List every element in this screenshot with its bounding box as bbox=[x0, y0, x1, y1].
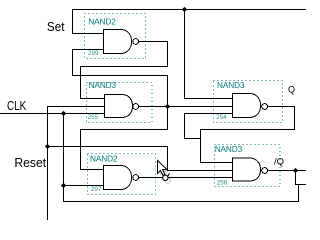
svg-text:254: 254 bbox=[216, 114, 227, 121]
svg-text:299: 299 bbox=[88, 50, 99, 57]
svg-text:NAND2: NAND2 bbox=[88, 16, 116, 26]
svg-text:/Q: /Q bbox=[274, 157, 284, 167]
svg-text:NAND2: NAND2 bbox=[90, 153, 118, 163]
svg-text:297: 297 bbox=[91, 186, 102, 193]
svg-text:CLK: CLK bbox=[7, 99, 27, 113]
svg-text:Set: Set bbox=[47, 20, 65, 34]
svg-text:NAND3: NAND3 bbox=[215, 144, 243, 154]
svg-text:Reset: Reset bbox=[14, 156, 46, 170]
svg-text:Q: Q bbox=[288, 85, 295, 95]
svg-text:NAND3: NAND3 bbox=[89, 80, 117, 90]
svg-text:256: 256 bbox=[217, 180, 228, 187]
svg-text:NAND3: NAND3 bbox=[217, 80, 245, 90]
svg-text:255: 255 bbox=[88, 114, 99, 121]
